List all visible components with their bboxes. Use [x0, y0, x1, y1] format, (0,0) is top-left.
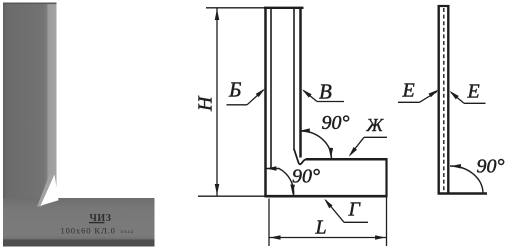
middle drawing: base top edge — [306, 158, 387, 161]
middle drawing: L dimension line — [270, 237, 387, 239]
right drawing: blade right edge — [447, 5, 449, 194]
svg-text:Н: Н — [195, 95, 217, 112]
middle drawing: blade inner-left line L2 — [270, 8, 272, 169]
middle drawing: blade right edge L4 — [299, 7, 302, 158]
middle drawing: base bottom edge — [265, 195, 388, 198]
svg-text:Б: Б — [228, 78, 241, 102]
svg-text:100х60 КЛ.0: 100х60 КЛ.0 — [61, 226, 116, 236]
middle drawing: H bottom arrow — [215, 184, 220, 195]
photo: base bottom shadow band — [3, 240, 155, 247]
svg-text:90°: 90° — [477, 156, 505, 178]
photo: inner corner relief notch — [41, 175, 59, 206]
middle drawing: blade top edge — [264, 7, 304, 9]
svg-text:Е: Е — [467, 81, 480, 103]
photo: square blade (vertical) — [3, 3, 57, 200]
middle drawing: base right edge — [385, 158, 387, 197]
middle drawing: top extension line — [206, 7, 265, 9]
right drawing: bottom surface line — [438, 192, 488, 195]
svg-text:пваа: пваа — [121, 230, 135, 235]
middle drawing: L left extension line — [268, 199, 270, 247]
photo: square base (horizontal) — [3, 198, 155, 240]
photo: inner corner relief notch light edge — [37, 175, 55, 207]
right drawing: blade center dashed line — [443, 8, 445, 192]
right drawing: blade left edge — [438, 5, 440, 194]
middle drawing: outer 90 arc — [266, 169, 294, 197]
svg-text:90°: 90° — [322, 112, 350, 134]
middle drawing: blade left edge L1 — [264, 7, 267, 197]
middle drawing: H top arrow — [215, 9, 220, 20]
middle drawing: L right extension line — [386, 197, 388, 246]
middle drawing: H dimension line — [216, 8, 218, 196]
svg-text:L: L — [315, 217, 327, 239]
svg-text:90°: 90° — [292, 166, 320, 188]
middle drawing: corner relief groove — [294, 149, 307, 164]
svg-text:Г: Г — [348, 199, 362, 221]
svg-text:Е: Е — [402, 80, 415, 102]
svg-text:Ж: Ж — [366, 115, 385, 135]
right drawing: blade top edge — [438, 5, 450, 7]
middle drawing: blade inner-right line L3 — [293, 8, 295, 150]
middle drawing: inner 90 arc — [301, 131, 332, 159]
svg-text:В: В — [319, 80, 332, 104]
middle drawing: H bottom extension line — [198, 195, 266, 197]
right drawing: 90 arc — [450, 166, 483, 194]
